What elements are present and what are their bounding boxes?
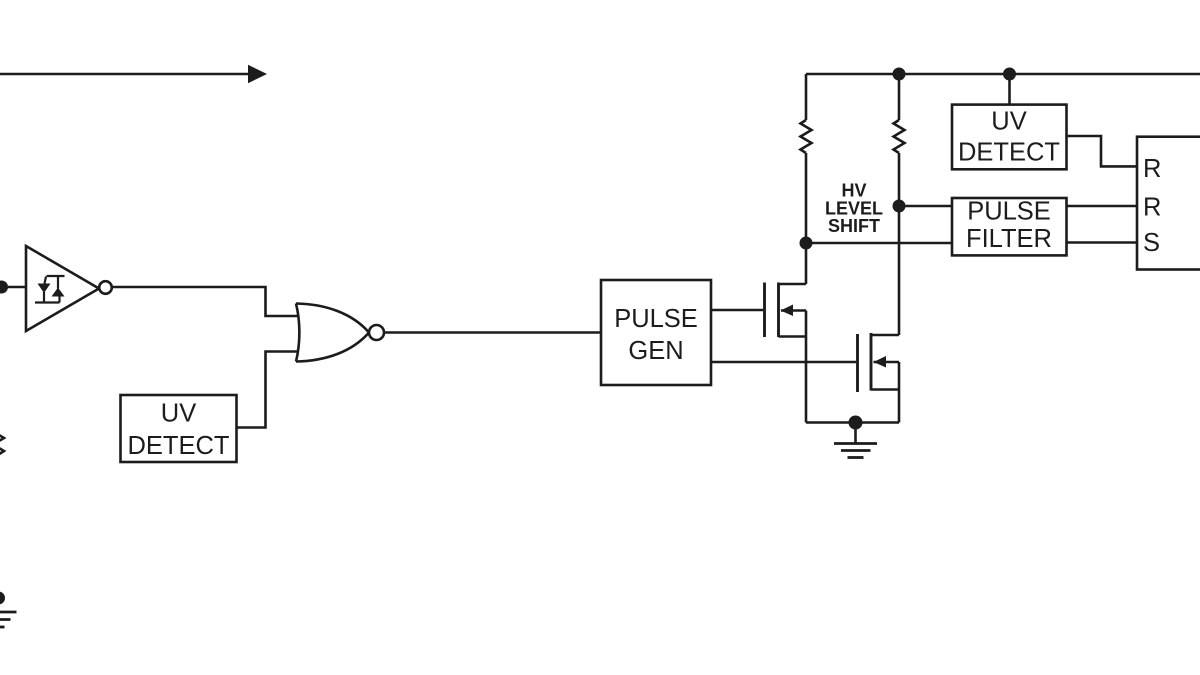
svg-text:DETECT: DETECT [958, 139, 1060, 167]
svg-text:DETECT: DETECT [128, 432, 230, 460]
svg-text:S: S [1143, 229, 1160, 257]
svg-text:GEN: GEN [628, 337, 683, 365]
svg-text:HV: HV [841, 181, 866, 201]
svg-text:SHIFT: SHIFT [828, 216, 880, 236]
svg-text:PULSE: PULSE [967, 198, 1051, 226]
svg-text:R: R [1143, 155, 1161, 183]
svg-text:FILTER: FILTER [966, 225, 1052, 253]
svg-text:R: R [1143, 194, 1161, 222]
svg-text:UV: UV [161, 400, 196, 428]
svg-text:PULSE: PULSE [614, 305, 698, 333]
svg-text:UV: UV [991, 108, 1026, 136]
